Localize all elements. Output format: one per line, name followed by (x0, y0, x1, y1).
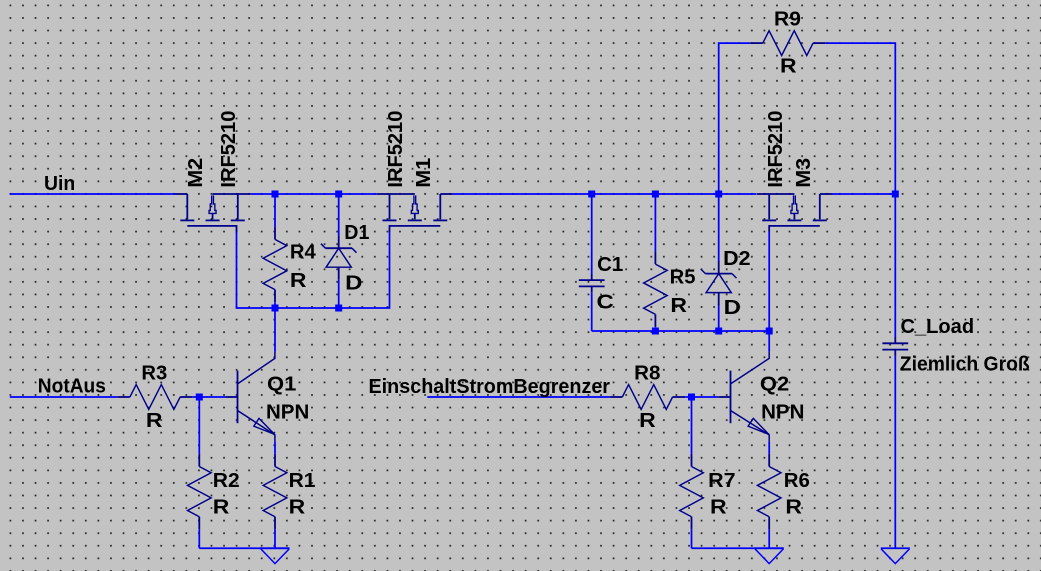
svg-text:R8: R8 (634, 363, 660, 385)
svg-text:R: R (213, 497, 230, 519)
svg-text:M2: M2 (185, 158, 207, 188)
svg-text:R7: R7 (708, 470, 735, 492)
svg-text:R: R (289, 497, 306, 519)
svg-text:D2: D2 (723, 248, 750, 270)
svg-text:R3: R3 (141, 363, 167, 385)
svg-text:M3: M3 (793, 158, 815, 188)
svg-text:R: R (290, 270, 307, 292)
svg-text:C1: C1 (597, 254, 623, 276)
svg-text:Ziemlich Groß: Ziemlich Groß (900, 354, 1030, 376)
svg-text:R9: R9 (774, 8, 801, 30)
svg-text:R: R (670, 295, 687, 317)
svg-text:R2: R2 (213, 470, 240, 492)
svg-text:R1: R1 (289, 470, 316, 492)
svg-text:IRF5210: IRF5210 (218, 111, 240, 188)
svg-text:Uin: Uin (44, 173, 75, 195)
svg-text:R: R (785, 497, 802, 519)
svg-text:R: R (146, 410, 163, 432)
svg-text:R: R (710, 497, 727, 519)
svg-text:D: D (724, 297, 741, 319)
svg-text:IRF5210: IRF5210 (765, 111, 787, 188)
svg-text:C: C (597, 292, 614, 314)
svg-text:R: R (639, 410, 656, 432)
svg-text:R: R (780, 55, 797, 77)
svg-text:C_Load: C_Load (901, 316, 975, 338)
svg-text:NotAus: NotAus (38, 376, 106, 398)
svg-text:NPN: NPN (761, 402, 804, 424)
svg-text:D1: D1 (344, 222, 369, 244)
svg-text:R4: R4 (290, 241, 317, 263)
svg-text:M1: M1 (413, 158, 435, 188)
svg-text:Q2: Q2 (760, 373, 789, 395)
svg-text:Q1: Q1 (267, 373, 296, 395)
svg-text:NPN: NPN (266, 402, 309, 424)
svg-text:IRF5210: IRF5210 (385, 111, 407, 188)
svg-text:R5: R5 (670, 266, 696, 288)
svg-text:D: D (345, 273, 362, 295)
svg-text:EinschaltStromBegrenzer: EinschaltStromBegrenzer (369, 376, 611, 398)
svg-text:R6: R6 (784, 470, 810, 492)
